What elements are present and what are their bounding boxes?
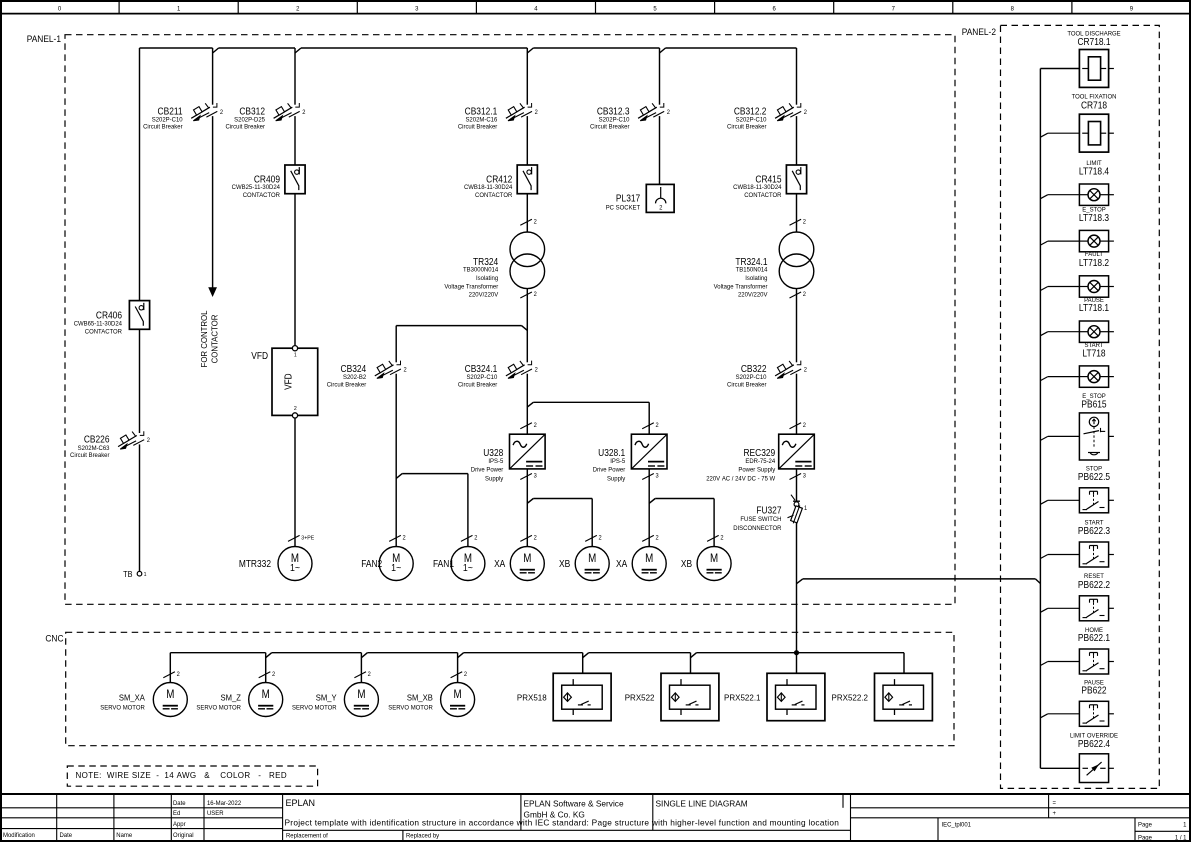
svg-text:1: 1 <box>804 506 807 512</box>
svg-text:LT718.3: LT718.3 <box>1079 212 1109 223</box>
svg-text:1~: 1~ <box>290 562 300 574</box>
svg-text:Circuit Breaker: Circuit Breaker <box>590 124 629 131</box>
svg-text:CB312.3: CB312.3 <box>597 106 630 117</box>
svg-text:VFD: VFD <box>283 373 294 390</box>
svg-text:S202P-C10: S202P-C10 <box>152 116 183 123</box>
svg-text:1: 1 <box>177 5 181 12</box>
svg-text:CWB18-11-30D24: CWB18-11-30D24 <box>733 184 782 191</box>
svg-text:Date: Date <box>59 832 72 839</box>
svg-text:9: 9 <box>1130 5 1134 12</box>
svg-text:CWB18-11-30D24: CWB18-11-30D24 <box>464 184 513 191</box>
svg-text:CB324.1: CB324.1 <box>465 363 498 374</box>
svg-text:S202P-C10: S202P-C10 <box>466 374 497 381</box>
svg-text:CWB65-11-30D24: CWB65-11-30D24 <box>74 320 123 327</box>
svg-text:S202P-C10: S202P-C10 <box>736 374 767 381</box>
svg-text:3: 3 <box>415 5 419 12</box>
svg-text:S202-B2: S202-B2 <box>343 374 367 381</box>
svg-text:16-Mar-2022: 16-Mar-2022 <box>207 800 242 807</box>
svg-text:SERVO MOTOR: SERVO MOTOR <box>388 704 433 711</box>
svg-text:IPS-5: IPS-5 <box>488 458 503 465</box>
svg-text:CONTACTOR: CONTACTOR <box>475 192 513 199</box>
svg-text:LT718.2: LT718.2 <box>1079 257 1109 268</box>
svg-text:PB622: PB622 <box>1081 685 1106 696</box>
svg-text:2: 2 <box>404 367 407 373</box>
svg-text:1 / 1: 1 / 1 <box>1175 834 1187 841</box>
svg-text:2: 2 <box>464 672 467 678</box>
svg-text:Circuit Breaker: Circuit Breaker <box>327 381 366 388</box>
svg-text:PB622.5: PB622.5 <box>1078 471 1110 482</box>
svg-text:0: 0 <box>58 5 62 12</box>
svg-text:2: 2 <box>535 110 538 116</box>
svg-text:Original: Original <box>173 832 194 839</box>
svg-text:Isolating: Isolating <box>745 275 768 282</box>
svg-text:CB324: CB324 <box>341 363 367 374</box>
svg-text:CR409: CR409 <box>254 174 280 185</box>
svg-text:1: 1 <box>144 572 147 578</box>
svg-text:CB312.2: CB312.2 <box>734 106 767 117</box>
svg-text:Date: Date <box>173 800 186 807</box>
svg-text:220V AC / 24V DC - 75 W: 220V AC / 24V DC - 75 W <box>706 475 775 482</box>
svg-text:2: 2 <box>534 219 537 225</box>
svg-text:M: M <box>645 552 653 565</box>
svg-text:3+PE: 3+PE <box>301 535 314 541</box>
svg-text:Circuit Breaker: Circuit Breaker <box>143 124 182 131</box>
svg-text:XA: XA <box>616 558 628 569</box>
svg-text:2: 2 <box>294 406 297 412</box>
svg-text:220V/220V: 220V/220V <box>469 291 499 298</box>
svg-text:XB: XB <box>559 558 570 569</box>
svg-text:M: M <box>454 688 462 701</box>
svg-text:USER: USER <box>207 810 224 817</box>
svg-text:2: 2 <box>656 423 659 429</box>
svg-text:Drive Power: Drive Power <box>471 466 503 473</box>
svg-text:FAN2: FAN2 <box>361 558 382 569</box>
svg-text:SM_Z: SM_Z <box>221 693 241 703</box>
svg-text:3: 3 <box>803 474 806 480</box>
svg-text:7: 7 <box>892 5 896 12</box>
svg-text:S202M-C16: S202M-C16 <box>465 116 497 123</box>
svg-text:CONTACTOR: CONTACTOR <box>85 328 123 335</box>
svg-text:2: 2 <box>272 672 275 678</box>
svg-text:PB622.1: PB622.1 <box>1078 632 1110 643</box>
svg-text:SM_XA: SM_XA <box>119 693 145 703</box>
svg-text:PANEL-2: PANEL-2 <box>962 26 996 36</box>
svg-text:Circuit Breaker: Circuit Breaker <box>458 381 497 388</box>
svg-text:Name: Name <box>116 832 132 839</box>
svg-text:CONTACTOR: CONTACTOR <box>210 315 219 364</box>
svg-text:PC SOCKET: PC SOCKET <box>606 204 641 211</box>
svg-text:DISCONNECTOR: DISCONNECTOR <box>733 525 782 532</box>
svg-text:Supply: Supply <box>485 475 504 482</box>
svg-text:FAN1: FAN1 <box>433 558 454 569</box>
svg-text:SERVO MOTOR: SERVO MOTOR <box>196 704 241 711</box>
svg-text:PB622.3: PB622.3 <box>1078 525 1110 536</box>
svg-text:2: 2 <box>659 205 662 211</box>
svg-text:CONTACTOR: CONTACTOR <box>744 192 782 199</box>
svg-text:Replaced by: Replaced by <box>406 832 440 839</box>
svg-text:2: 2 <box>803 219 806 225</box>
svg-text:PRX522: PRX522 <box>625 692 655 702</box>
svg-text:Voltage Transformer: Voltage Transformer <box>444 284 498 291</box>
svg-text:2: 2 <box>302 110 305 116</box>
svg-text:Power Supply: Power Supply <box>738 466 776 473</box>
svg-text:FOR CONTROL: FOR CONTROL <box>200 310 209 367</box>
svg-text:EPLAN: EPLAN <box>286 798 316 808</box>
svg-text:3: 3 <box>534 474 537 480</box>
svg-text:2: 2 <box>656 535 659 541</box>
svg-text:CR415: CR415 <box>755 174 781 185</box>
svg-text:Supply: Supply <box>607 475 626 482</box>
svg-text:EPLAN Software & Service: EPLAN Software & Service <box>524 799 624 809</box>
svg-text:VFD: VFD <box>251 350 268 361</box>
svg-text:XB: XB <box>681 558 692 569</box>
svg-text:PRX518: PRX518 <box>517 692 547 702</box>
svg-text:S202P-C10: S202P-C10 <box>599 116 630 123</box>
svg-text:Drive Power: Drive Power <box>593 466 625 473</box>
svg-text:PRX522.1: PRX522.1 <box>724 692 761 702</box>
svg-text:IEC_tpl001: IEC_tpl001 <box>941 821 971 828</box>
svg-text:CB226: CB226 <box>84 434 110 445</box>
svg-text:PL317: PL317 <box>616 193 640 204</box>
svg-text:NOTE: WIRE SIZE - 14 AWG: NOTE: WIRE SIZE - 14 AWG & COLOR - RED <box>76 771 288 780</box>
svg-text:2: 2 <box>535 367 538 373</box>
svg-text:M: M <box>357 688 365 701</box>
svg-text:=: = <box>1052 799 1056 806</box>
svg-text:Circuit Breaker: Circuit Breaker <box>727 381 766 388</box>
svg-text:2: 2 <box>402 535 405 541</box>
svg-text:M: M <box>710 552 718 565</box>
svg-text:Circuit Breaker: Circuit Breaker <box>727 124 766 131</box>
svg-text:S202P-C10: S202P-C10 <box>736 116 767 123</box>
svg-text:1~: 1~ <box>391 562 401 574</box>
svg-text:3: 3 <box>656 474 659 480</box>
svg-text:8: 8 <box>1011 5 1015 12</box>
svg-text:2: 2 <box>534 535 537 541</box>
svg-text:5: 5 <box>653 5 657 12</box>
svg-text:Appr: Appr <box>173 821 186 828</box>
svg-text:M: M <box>262 688 270 701</box>
svg-text:PRX522.2: PRX522.2 <box>832 692 869 702</box>
svg-text:SM_XB: SM_XB <box>407 693 433 703</box>
svg-text:PB622.4: PB622.4 <box>1078 738 1110 749</box>
svg-text:SM_Y: SM_Y <box>316 693 337 703</box>
svg-text:CONTACTOR: CONTACTOR <box>243 192 281 199</box>
svg-text:CR406: CR406 <box>96 310 122 321</box>
svg-text:MTR332: MTR332 <box>239 558 271 569</box>
svg-text:EDR-75-24: EDR-75-24 <box>745 458 775 465</box>
svg-text:PB622.2: PB622.2 <box>1078 579 1110 590</box>
svg-text:6: 6 <box>772 5 776 12</box>
svg-text:Replacement of: Replacement of <box>286 832 328 839</box>
svg-text:TB3000N014: TB3000N014 <box>463 266 499 273</box>
svg-text:PANEL-1: PANEL-1 <box>27 33 61 43</box>
svg-text:4: 4 <box>534 5 538 12</box>
svg-text:SERVO MOTOR: SERVO MOTOR <box>100 704 145 711</box>
svg-text:2: 2 <box>804 110 807 116</box>
svg-text:CB312.1: CB312.1 <box>465 106 498 117</box>
svg-text:LT718.1: LT718.1 <box>1079 303 1109 314</box>
svg-text:CWB25-11-30D24: CWB25-11-30D24 <box>232 184 281 191</box>
svg-text:CB211: CB211 <box>158 106 183 117</box>
svg-text:M: M <box>166 688 174 701</box>
svg-text:TB150N014: TB150N014 <box>736 266 768 273</box>
svg-text:FUSE SWITCH: FUSE SWITCH <box>740 516 781 523</box>
svg-text:1~: 1~ <box>463 562 473 574</box>
svg-text:M: M <box>523 552 531 565</box>
svg-text:2: 2 <box>147 438 150 444</box>
svg-text:1: 1 <box>294 352 297 358</box>
svg-text:TB: TB <box>123 569 132 579</box>
svg-text:2: 2 <box>368 672 371 678</box>
svg-text:U328: U328 <box>483 447 503 458</box>
svg-text:CR718.1: CR718.1 <box>1077 37 1110 48</box>
svg-text:Modification: Modification <box>3 832 35 839</box>
svg-text:GmbH & Co. KG: GmbH & Co. KG <box>524 809 585 819</box>
svg-text:M: M <box>588 552 596 565</box>
svg-text:SINGLE LINE DIAGRAM: SINGLE LINE DIAGRAM <box>656 799 748 809</box>
svg-text:Page: Page <box>1138 821 1153 828</box>
svg-text:2: 2 <box>534 423 537 429</box>
svg-text:Page: Page <box>1138 834 1153 841</box>
svg-text:Circuit Breaker: Circuit Breaker <box>70 452 109 459</box>
svg-text:CR412: CR412 <box>486 174 512 185</box>
svg-text:FU327: FU327 <box>756 505 781 516</box>
svg-text:2: 2 <box>599 535 602 541</box>
svg-text:1: 1 <box>1183 821 1187 828</box>
svg-text:Ed: Ed <box>173 810 181 817</box>
svg-text:S202M-C63: S202M-C63 <box>78 445 110 452</box>
svg-text:CB312: CB312 <box>239 106 265 117</box>
svg-text:Voltage Transformer: Voltage Transformer <box>714 284 768 291</box>
svg-text:2: 2 <box>177 672 180 678</box>
svg-text:PB615: PB615 <box>1081 399 1106 410</box>
svg-text:REC329: REC329 <box>743 447 775 458</box>
svg-text:U328.1: U328.1 <box>598 447 625 458</box>
svg-text:2: 2 <box>534 292 537 298</box>
svg-text:2: 2 <box>803 292 806 298</box>
svg-text:2: 2 <box>296 5 300 12</box>
svg-text:2: 2 <box>667 110 670 116</box>
svg-text:+: + <box>1052 810 1056 817</box>
svg-text:2: 2 <box>720 535 723 541</box>
svg-text:Circuit Breaker: Circuit Breaker <box>226 124 265 131</box>
svg-text:2: 2 <box>220 110 223 116</box>
svg-text:CNC: CNC <box>45 633 63 643</box>
svg-text:Circuit Breaker: Circuit Breaker <box>458 124 497 131</box>
svg-text:2: 2 <box>804 367 807 373</box>
svg-text:XA: XA <box>494 558 506 569</box>
svg-text:2: 2 <box>803 423 806 429</box>
svg-text:IPS-5: IPS-5 <box>610 458 625 465</box>
svg-text:SERVO MOTOR: SERVO MOTOR <box>292 704 337 711</box>
svg-text:2: 2 <box>474 535 477 541</box>
svg-text:LT718.4: LT718.4 <box>1079 166 1109 177</box>
svg-text:CR718: CR718 <box>1081 100 1107 111</box>
svg-text:220V/220V: 220V/220V <box>738 291 768 298</box>
svg-text:CB322: CB322 <box>741 363 767 374</box>
svg-text:Isolating: Isolating <box>476 275 499 282</box>
svg-text:LT718: LT718 <box>1082 348 1105 359</box>
svg-text:S202P-D25: S202P-D25 <box>234 116 265 123</box>
